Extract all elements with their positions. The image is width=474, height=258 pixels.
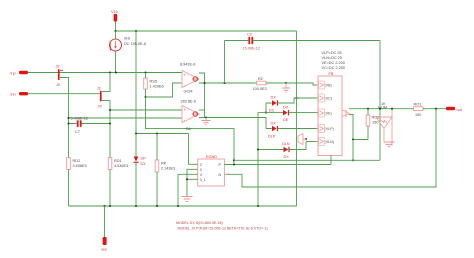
wire DLN row (258, 142, 306, 150)
h-source HLIM (376, 102, 395, 147)
svg-text:(VLP): (VLP) (325, 127, 334, 131)
junction (391, 108, 393, 110)
svg-text:C7: C7 (75, 130, 80, 134)
junction (103, 205, 105, 207)
svg-text:282.8E-6: 282.8E-6 (181, 100, 196, 104)
wire GA minus input row y118 (69, 117, 183, 119)
svg-text:+: + (184, 108, 186, 112)
transistor J2 (56, 65, 64, 88)
diode DLP (268, 122, 278, 139)
wire C2 left leg (224, 41, 226, 84)
junction (285, 82, 287, 84)
wire RSS top (145, 73, 147, 79)
svg-text:DX: DX (283, 106, 289, 110)
svg-text:VE=DC 2.200: VE=DC 2.200 (322, 61, 345, 65)
wire GA out top stub (199, 109, 205, 111)
svg-text:J2: J2 (56, 65, 60, 69)
svg-text:DLN: DLN (282, 142, 290, 146)
svg-text:1.429E6: 1.429E6 (150, 84, 164, 88)
svg-text:RP: RP (161, 161, 167, 165)
junction (257, 148, 259, 150)
svg-text:RO2: RO2 (372, 116, 380, 120)
svg-text:C2: C2 (247, 32, 252, 36)
op-amp GA (181, 100, 200, 132)
junction (205, 116, 207, 118)
svg-text:0_1: 0_1 (200, 178, 206, 182)
svg-text:+: + (184, 73, 186, 77)
port V10 (111, 10, 118, 22)
junction (352, 138, 354, 140)
svg-text:RD2: RD2 (73, 159, 81, 163)
svg-text:(VE): (VE) (325, 112, 332, 116)
junction (265, 112, 267, 114)
svg-text:MODEL JX PJF(IS=15.00E-12 BETA: MODEL JX PJF(IS=15.00E-12 BETA=270.1E-6 … (178, 227, 268, 231)
junction (367, 108, 369, 110)
junction (295, 97, 297, 99)
svg-text:JX: JX (98, 105, 103, 109)
wire RO2 top (367, 109, 369, 115)
wire FB output bottom branch (349, 115, 368, 140)
svg-text:R2: R2 (258, 77, 263, 81)
svg-text:DX: DX (284, 155, 290, 159)
wire EGND pin4 to V- rail (178, 174, 198, 206)
wire node6 row y83 (199, 82, 257, 84)
wire RSS bottom node99 (145, 89, 147, 97)
svg-text:HLIM: HLIM (378, 106, 387, 110)
wire RO1 right to out (423, 108, 446, 110)
wire node99 riser to FB (352, 140, 354, 161)
junction (233, 163, 235, 165)
source VLN symbol (298, 134, 306, 145)
wire DP bottom (135, 163, 137, 206)
svg-text:100.0E3: 100.0E3 (253, 87, 267, 91)
wire ground row y117.5 (199, 118, 266, 129)
wire inp to J2 gate and node10 rail (28, 72, 182, 74)
svg-text:inp: inp (11, 72, 16, 76)
resistor RP (155, 160, 175, 172)
svg-text:J1: J1 (97, 86, 101, 90)
svg-text:3.536E3: 3.536E3 (73, 164, 87, 168)
svg-text:DLP: DLP (268, 135, 276, 139)
svg-text:(VLN): (VLN) (325, 140, 334, 144)
wire RD2 bottom (68, 170, 70, 207)
svg-text:GA: GA (186, 127, 192, 131)
wire node99 to GCM minus (146, 83, 183, 97)
junction (67, 117, 69, 119)
junction (109, 71, 111, 73)
wire bottom rail node4 (69, 205, 297, 207)
wire ISS top (115, 31, 117, 39)
junction (435, 108, 437, 110)
svg-text:vee: vee (101, 248, 107, 252)
wire x256.5 vertical (257, 113, 259, 206)
svg-text:DC: DC (269, 109, 275, 113)
svg-text:(VB): (VB) (325, 84, 332, 88)
wire top rail node 3 (116, 30, 297, 32)
diode DC (269, 96, 278, 113)
capacitor C2 (225, 32, 381, 50)
svg-text:150: 150 (415, 113, 421, 117)
wire inn to J1 gate (28, 93, 100, 95)
wire vee stem (104, 206, 106, 237)
wire J1 source up to node10 rail (102, 73, 110, 92)
text model definitions (176, 221, 268, 231)
diode DE (283, 106, 289, 123)
junction (305, 138, 307, 140)
port out (446, 107, 463, 112)
block EGND (198, 155, 225, 186)
svg-text:inn: inn (11, 93, 16, 97)
op-amp GCM (180, 63, 199, 94)
diode DP (134, 157, 147, 167)
svg-text:3.536E3: 3.536E3 (114, 164, 128, 168)
svg-text:DC 195.0E-6: DC 195.0E-6 (124, 42, 146, 46)
svg-text:RSS: RSS (150, 79, 158, 83)
wire EGND pin0 to ground (187, 169, 198, 196)
svg-text:DE: DE (283, 118, 289, 122)
capacitor C7 (69, 116, 111, 134)
wire VB to FB row1 (286, 83, 319, 85)
svg-text:DX: DX (271, 96, 277, 100)
svg-text:JX: JX (56, 83, 61, 87)
junction (109, 109, 111, 111)
resistor R2 (253, 77, 267, 91)
svg-text:150: 150 (372, 121, 378, 125)
resistor RO2 (366, 115, 379, 126)
wire J2 drain down to RD2 (60, 78, 69, 158)
svg-text:GCM: GCM (184, 90, 193, 94)
wire V10 stem (115, 22, 117, 32)
resistor RD1 (108, 158, 128, 170)
svg-text:2.143E3: 2.143E3 (161, 166, 175, 170)
wire RD1 bottom (109, 170, 111, 207)
junction (114, 30, 116, 32)
svg-text:VLP=DC 25: VLP=DC 25 (322, 51, 342, 55)
svg-text:RO1: RO1 (414, 102, 422, 106)
diode DLN (282, 142, 290, 159)
svg-text:RD1: RD1 (114, 159, 122, 163)
svg-text:DX: DX (141, 162, 147, 166)
svg-text:8.942E-9: 8.942E-9 (180, 63, 195, 67)
wire DE row to FB row3 (258, 112, 319, 114)
svg-text:MODEL DX D(IS=800.0E-18): MODEL DX D(IS=800.0E-18) (176, 221, 223, 225)
svg-text:FB: FB (329, 72, 334, 76)
wire node99 down and right (146, 97, 235, 165)
svg-text:0: 0 (200, 168, 202, 172)
resistor RSS (144, 78, 164, 89)
wire RP top (156, 134, 158, 161)
wire EGND P row node99 (224, 164, 331, 166)
resistor RO1 (414, 102, 424, 117)
svg-text:3.498E-12: 3.498E-12 (71, 116, 89, 120)
block FB (318, 72, 349, 156)
port vee (101, 237, 107, 252)
wire GA plus input row y110 (110, 109, 182, 111)
wire RO2 bottom (367, 126, 369, 140)
wire node99 upper branch (234, 159, 380, 161)
wire RP bottom (156, 172, 158, 206)
svg-text:(VC): (VC) (325, 97, 332, 101)
wire DP top (135, 134, 137, 157)
wire node3 vertical x136 (135, 31, 137, 134)
wire R2 right to VB node (266, 82, 286, 84)
wire x296.5 vertical from top rail to bottom rail (296, 31, 298, 206)
junction (144, 96, 146, 98)
wire DC anode riser (266, 103, 272, 113)
text supply values (322, 51, 346, 70)
svg-text:V10: V10 (111, 10, 118, 14)
wire VC feed to FB row2 (294, 97, 319, 99)
junction (135, 132, 137, 134)
wire FB output top branch node7 (349, 108, 414, 110)
wire DLP row to FB row4 (266, 128, 319, 130)
junction (186, 178, 188, 180)
transistor J1 (97, 86, 105, 108)
wire GCM out top (199, 73, 205, 118)
wire EGND pin3 (189, 134, 198, 165)
resistor RD2 (67, 158, 87, 170)
wire J1 drain down to RD1 (102, 101, 110, 158)
junction (203, 82, 205, 84)
wire FB bottom riser (330, 156, 332, 165)
svg-text:N: N (219, 173, 222, 177)
svg-text:DX: DX (271, 122, 277, 126)
svg-text:EGND: EGND (206, 155, 217, 159)
wire DC cathode riser (278, 98, 294, 103)
wire C2 right leg to node7 (379, 41, 381, 161)
ground (EGND) (182, 197, 193, 202)
wire out feedback loop (224, 109, 436, 187)
svg-text:15.00E-12: 15.00E-12 (243, 47, 261, 51)
ground (GA output) (202, 118, 211, 125)
svg-text:3: 3 (200, 163, 202, 167)
svg-text:VC=DC 2.200: VC=DC 2.200 (322, 66, 346, 70)
port inp (11, 71, 29, 76)
svg-text:VLN=DC 25: VLN=DC 25 (322, 56, 342, 60)
junction (67, 122, 69, 124)
ground (VB) (282, 83, 290, 92)
svg-text:ISS: ISS (124, 37, 131, 41)
wire ISS bottom to node10 rail (115, 51, 117, 73)
wire EGND pin0_1 (187, 178, 198, 180)
svg-text:4: 4 (200, 173, 202, 177)
wire FB row5 stub (306, 141, 319, 143)
wire node3 row y133.5 (136, 133, 189, 135)
current source ISS (109, 37, 146, 52)
svg-text:DP: DP (141, 157, 147, 161)
port inn (11, 92, 29, 97)
